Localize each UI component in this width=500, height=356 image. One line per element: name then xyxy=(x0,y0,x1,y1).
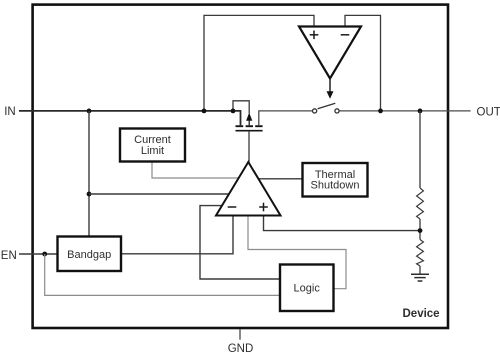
comparator output arrow xyxy=(329,79,331,93)
node junction - input on OUT rail xyxy=(378,109,383,114)
op-amp U2 reverse current comparator xyxy=(299,27,361,79)
thermal shutdown box xyxy=(303,163,368,197)
wire IN rail xyxy=(19,111,241,125)
node junction IN and bandgap bus xyxy=(87,109,92,114)
wire EN rail xyxy=(19,253,58,255)
resistor R1 xyxy=(417,188,424,219)
device outline xyxy=(33,5,448,328)
wire comparator + input xyxy=(204,15,314,111)
wire OUT rail xyxy=(339,110,470,112)
bandgap box xyxy=(58,237,122,272)
wire logic to amp base enable xyxy=(248,216,346,289)
svg-text:Shutdown: Shutdown xyxy=(311,180,360,192)
node junction OUT and divider xyxy=(418,109,423,114)
GND pin stub xyxy=(239,329,241,340)
wire amp + input to feedback node xyxy=(264,216,421,231)
wire OUT to R1 xyxy=(419,111,421,188)
wire current limit to amp xyxy=(152,162,239,179)
wire comparator - input xyxy=(345,15,381,111)
op-amp U1 error amplifier xyxy=(216,162,281,216)
node junction EN branch xyxy=(42,252,47,257)
switch S1 xyxy=(313,103,340,113)
svg-text:Bandgap: Bandgap xyxy=(67,249,111,261)
ground xyxy=(411,274,429,281)
svg-text:OUT: OUT xyxy=(477,107,500,119)
wire amp lower-left to logic xyxy=(200,206,280,279)
node junction source on IN rail xyxy=(231,109,236,114)
wire bus IN to bandgap xyxy=(88,111,90,237)
wire R1 to R2 xyxy=(419,219,421,240)
svg-text:Logic: Logic xyxy=(294,283,321,295)
logic box xyxy=(280,265,334,312)
resistor R2 xyxy=(417,240,424,267)
node feedback junction xyxy=(418,228,423,233)
svg-text:IN: IN xyxy=(4,106,16,118)
node junction + input on IN rail xyxy=(202,109,207,114)
svg-text:GND: GND xyxy=(228,343,254,355)
svg-text:Device: Device xyxy=(403,308,440,320)
wire gate to error amp xyxy=(248,131,250,162)
svg-text:Limit: Limit xyxy=(141,145,164,157)
wire R2 to ground xyxy=(419,266,421,274)
wire bandgap to amp - input xyxy=(121,216,233,254)
current limit box xyxy=(120,129,185,162)
wire amp output to thermal shutdown xyxy=(258,178,302,180)
node junction bus to amp branch xyxy=(87,192,92,197)
wire EN to logic xyxy=(45,254,280,295)
svg-text:EN: EN xyxy=(1,250,17,262)
wire bus to amp left input xyxy=(89,193,229,195)
transistor Q1 PMOS pass FET xyxy=(233,101,263,131)
wire drain to switch xyxy=(259,111,313,125)
